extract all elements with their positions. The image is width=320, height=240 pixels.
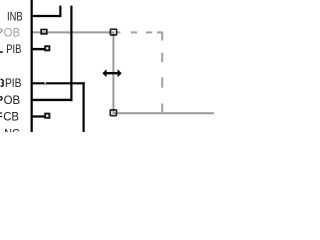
svg-text:CB: CB (3, 110, 19, 123)
svg-text:PIB: PIB (5, 78, 21, 91)
svg-text:PIB: PIB (6, 43, 21, 56)
svg-text:OB: OB (4, 26, 21, 39)
svg-text:INB: INB (7, 10, 23, 23)
svg-text:OB: OB (4, 94, 21, 107)
